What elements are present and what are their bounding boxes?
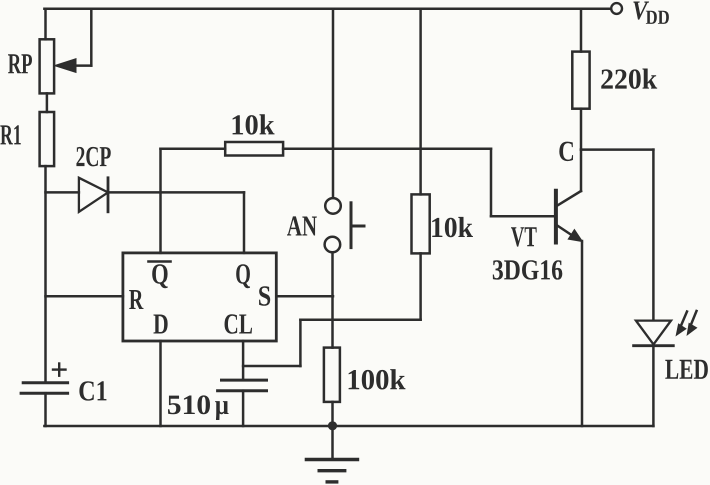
ground bar 3	[327, 480, 337, 483]
LED cathode bar	[634, 344, 674, 347]
resistor R1 body	[40, 112, 55, 166]
wire RP to R1	[46, 93, 49, 112]
resistor 100k body	[324, 348, 340, 402]
junction dot	[328, 421, 337, 430]
LED arrow 1	[680, 312, 687, 329]
label C1	[79, 381, 106, 400]
potentiometer RP body	[40, 39, 55, 93]
capacitor C1 plate top	[23, 381, 67, 384]
transistor VT collector lead	[580, 150, 583, 191]
wire diode cathode to node	[108, 191, 244, 194]
capacitor C1 polarity plus	[53, 368, 66, 370]
wire bottom rail	[44, 425, 653, 428]
wire 10k left leg down to Qbar pin	[159, 149, 162, 253]
transistor VT emitter arrowhead	[567, 229, 583, 243]
label 10k vertical	[432, 217, 473, 237]
wire 10k left	[161, 147, 226, 150]
capacitor 510u plate top	[222, 379, 267, 382]
wire left vertical top	[44, 9, 47, 40]
ground bar 2	[319, 469, 345, 472]
wire R pin	[46, 295, 123, 298]
wire 220k top leg	[580, 9, 583, 52]
label R	[129, 290, 143, 309]
label Qbar	[152, 264, 168, 288]
capacitor 510u plate bottom	[218, 389, 267, 392]
label VDD	[633, 2, 649, 20]
node C label	[559, 142, 573, 161]
label 100k	[349, 369, 406, 389]
wire link to CL leg	[243, 365, 300, 368]
wire C1 to rail	[44, 393, 47, 426]
wire AN top	[332, 9, 335, 198]
wire LED to rail	[652, 346, 655, 426]
label D	[153, 315, 167, 334]
label Q	[236, 264, 250, 288]
wire 10k vertical top leg	[419, 9, 422, 195]
label 3DG16	[493, 260, 563, 279]
resistor 10k vertical body	[412, 194, 430, 253]
wire emitter down	[581, 241, 584, 426]
diode 2CP	[79, 178, 108, 212]
pushbutton AN contact top	[325, 198, 341, 214]
wire base path	[490, 149, 493, 217]
label 10k horizontal	[233, 114, 275, 134]
wire R1 down to C1	[44, 166, 47, 383]
flip-flop U1 box	[123, 253, 276, 341]
wire 10k vertical bottom leg	[419, 253, 422, 319]
label 510u	[168, 395, 210, 414]
wire link horizontal	[300, 319, 420, 322]
wire collector to LED top	[581, 148, 653, 151]
label 220k	[601, 68, 657, 88]
wire S pin	[276, 295, 333, 298]
capacitor C1 plate bottom	[21, 392, 68, 395]
wire 220k bottom leg	[580, 109, 583, 150]
label CL	[225, 314, 252, 333]
label 2CP	[76, 147, 110, 166]
wire 10k right	[283, 147, 491, 150]
label LED	[665, 360, 708, 379]
potentiometer RP wiper	[55, 59, 77, 73]
pushbutton AN contact bottom	[325, 237, 341, 253]
label S	[259, 286, 270, 305]
wire CL pin down	[242, 341, 245, 380]
label RP	[8, 54, 32, 73]
resistor 220k body	[572, 52, 589, 109]
wire diode anode	[46, 191, 79, 194]
LED arrow 2	[690, 311, 697, 327]
wire top rail	[44, 8, 610, 11]
wire 100k bottom	[331, 402, 334, 426]
label AN	[287, 216, 317, 235]
terminal VDD	[611, 3, 622, 14]
label R1	[0, 125, 20, 144]
transistor VT emitter lead	[557, 225, 573, 235]
label VT	[511, 227, 537, 246]
pushbutton AN actuator	[350, 203, 353, 248]
wire D pin down	[159, 341, 162, 426]
wire 510u to rail	[242, 391, 245, 426]
wire AN bottom down to 100k	[331, 252, 334, 347]
LED triangle	[636, 321, 671, 345]
wire node to Q pin	[243, 192, 246, 253]
resistor 10k horizontal body	[225, 142, 283, 156]
ground stub	[331, 426, 334, 459]
transistor VT base bar	[554, 191, 558, 243]
ground bar 1	[306, 458, 357, 461]
wire link vertical	[299, 320, 302, 366]
